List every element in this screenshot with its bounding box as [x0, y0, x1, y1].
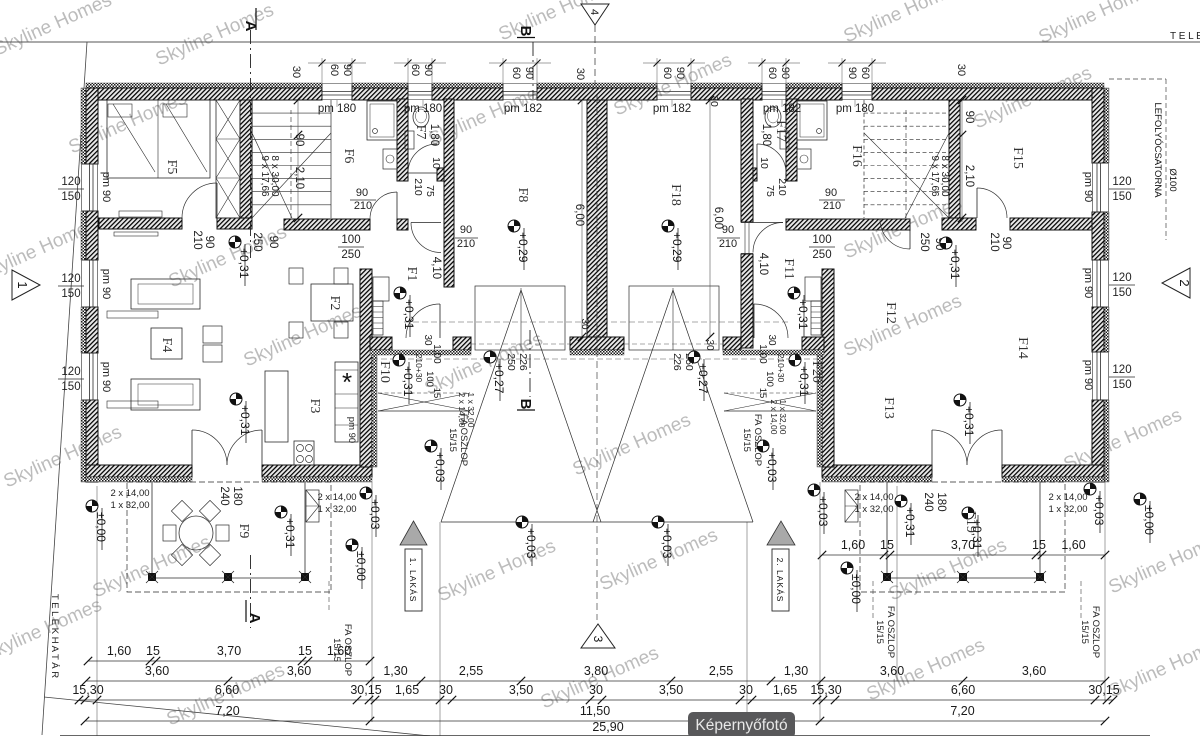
svg-text:210: 210: [191, 230, 203, 249]
svg-text:T E L E: T E L E: [1170, 31, 1200, 42]
svg-text:1 x 32,00: 1 x 32,00: [1048, 504, 1087, 515]
svg-text:30: 30: [704, 339, 715, 351]
svg-text:150: 150: [61, 381, 80, 393]
svg-text:F15: F15: [1010, 147, 1025, 169]
svg-text:250: 250: [812, 249, 831, 261]
svg-text:*: *: [342, 367, 352, 397]
svg-text:120: 120: [1112, 364, 1131, 376]
svg-text:30: 30: [739, 683, 753, 697]
svg-text:90: 90: [341, 64, 353, 76]
svg-text:15/15: 15/15: [1079, 620, 1090, 644]
svg-text:30: 30: [290, 66, 302, 78]
svg-text:90: 90: [674, 67, 686, 79]
svg-text:2 x 14,00: 2 x 14,00: [317, 492, 356, 503]
svg-text:25,90: 25,90: [592, 720, 623, 734]
svg-text:60: 60: [859, 67, 871, 79]
svg-text:60: 60: [766, 67, 778, 79]
svg-text:120: 120: [61, 366, 80, 378]
svg-text:250: 250: [918, 232, 930, 251]
svg-text:210+30: 210+30: [776, 354, 786, 383]
svg-text:3,70: 3,70: [951, 538, 975, 552]
svg-text:+0,03: +0,03: [816, 496, 830, 527]
svg-text:75: 75: [424, 185, 436, 197]
svg-text:210: 210: [988, 232, 1000, 251]
svg-text:+0,03: +0,03: [524, 528, 538, 559]
svg-text:F13: F13: [881, 397, 896, 419]
svg-text:1,80: 1,80: [428, 124, 440, 146]
svg-text:6,60: 6,60: [215, 683, 239, 697]
svg-text:100: 100: [424, 371, 435, 387]
svg-text:F1: F1: [404, 267, 419, 282]
svg-text:pm 90: pm 90: [100, 172, 112, 203]
svg-text:F16: F16: [849, 145, 864, 167]
svg-text:Képernyőfotó: Képernyőfotó: [695, 717, 787, 734]
svg-text:F14: F14: [1015, 337, 1030, 359]
svg-text:7,20: 7,20: [215, 704, 239, 718]
svg-text:F8: F8: [515, 188, 530, 203]
svg-text:F5: F5: [164, 160, 179, 175]
svg-text:6,00: 6,00: [712, 207, 724, 229]
svg-text:1,80: 1,80: [760, 124, 772, 146]
svg-text:F10: F10: [377, 361, 392, 383]
svg-text:1,65: 1,65: [773, 683, 797, 697]
svg-text:+0,03: +0,03: [368, 499, 382, 530]
svg-text:15/15: 15/15: [447, 428, 458, 452]
svg-text:210: 210: [457, 238, 475, 250]
svg-text:+0,31: +0,31: [402, 299, 416, 330]
svg-text:F12: F12: [883, 302, 898, 324]
svg-text:3,60: 3,60: [1022, 664, 1046, 678]
svg-text:250: 250: [251, 232, 263, 251]
svg-text:15: 15: [1032, 538, 1046, 552]
svg-text:±0,00: ±0,00: [849, 574, 863, 604]
svg-text:3,60: 3,60: [880, 664, 904, 678]
svg-text:±0,00: ±0,00: [94, 512, 108, 542]
svg-text:210: 210: [719, 238, 737, 250]
svg-text:+0,03: +0,03: [433, 452, 447, 483]
svg-text:15: 15: [757, 388, 768, 399]
svg-text:F4: F4: [159, 338, 174, 353]
svg-text:90: 90: [460, 224, 472, 236]
svg-text:150: 150: [61, 191, 80, 203]
svg-text:2,55: 2,55: [459, 664, 483, 678]
svg-text:B: B: [517, 26, 534, 37]
svg-text:+0,27: +0,27: [492, 363, 506, 394]
svg-text:4,10: 4,10: [757, 253, 769, 275]
svg-text:F17: F17: [773, 120, 788, 142]
svg-text:90: 90: [846, 67, 858, 79]
svg-text:1,00: 1,00: [431, 344, 442, 364]
svg-text:FA OSZLOP: FA OSZLOP: [1090, 606, 1101, 658]
svg-text:30: 30: [589, 683, 603, 697]
svg-text:+0,03: +0,03: [660, 528, 674, 559]
svg-text:1,00: 1,00: [757, 344, 768, 364]
svg-text:10: 10: [430, 157, 442, 169]
svg-text:180: 180: [231, 486, 243, 505]
svg-text:2 x 14,00: 2 x 14,00: [769, 400, 779, 435]
svg-text:7,20: 7,20: [950, 704, 974, 718]
svg-text:FA OSZLOP: FA OSZLOP: [458, 414, 469, 466]
svg-text:+0,31: +0,31: [401, 366, 415, 397]
svg-text:90: 90: [267, 236, 279, 249]
svg-text:100: 100: [812, 234, 831, 246]
svg-text:6,60: 6,60: [951, 683, 975, 697]
svg-text:+0,03: +0,03: [765, 452, 779, 483]
svg-text:3,60: 3,60: [145, 664, 169, 678]
svg-text:30: 30: [955, 64, 967, 76]
svg-text:75: 75: [764, 185, 776, 197]
svg-text:15: 15: [880, 538, 894, 552]
svg-text:1,30: 1,30: [784, 664, 808, 678]
svg-text:2,55: 2,55: [709, 664, 733, 678]
svg-text:F2: F2: [327, 296, 342, 311]
svg-text:1 x 32,00: 1 x 32,00: [317, 504, 356, 515]
svg-text:pm 90: pm 90: [100, 269, 112, 300]
svg-text:+0,31: +0,31: [948, 249, 962, 280]
svg-text:F9: F9: [236, 524, 251, 539]
svg-text:250: 250: [341, 249, 360, 261]
svg-text:+0,27: +0,27: [696, 363, 710, 394]
svg-text:LEFOLYÓCSATORNA: LEFOLYÓCSATORNA: [1152, 102, 1163, 198]
svg-text:90: 90: [203, 236, 215, 249]
svg-text:90: 90: [1000, 237, 1012, 250]
svg-text:B: B: [517, 399, 534, 410]
svg-text:9 x 17,66: 9 x 17,66: [259, 155, 270, 197]
svg-text:pm 90: pm 90: [1082, 172, 1094, 203]
svg-text:FA OSZLOP: FA OSZLOP: [885, 606, 896, 658]
svg-text:pm 90: pm 90: [1082, 360, 1094, 391]
svg-text:1 x 32,00: 1 x 32,00: [110, 500, 149, 511]
svg-text:15,30: 15,30: [72, 683, 103, 697]
svg-text:F11: F11: [781, 258, 796, 279]
svg-text:+0,03: +0,03: [1092, 495, 1106, 526]
svg-text:1 x 32,00: 1 x 32,00: [778, 400, 788, 435]
svg-text:2: 2: [1177, 279, 1192, 286]
svg-text:30: 30: [579, 318, 590, 330]
svg-text:3,60: 3,60: [287, 664, 311, 678]
svg-text:2,10: 2,10: [293, 167, 305, 189]
svg-text:150: 150: [61, 288, 80, 300]
svg-text:60: 60: [409, 64, 421, 76]
svg-text:pm 90: pm 90: [100, 362, 112, 393]
svg-text:+0,31: +0,31: [796, 299, 810, 330]
svg-text:150: 150: [1112, 379, 1131, 391]
svg-text:A: A: [246, 613, 263, 624]
svg-text:15: 15: [298, 644, 312, 658]
svg-text:210: 210: [412, 178, 424, 196]
svg-text:90: 90: [963, 111, 975, 124]
svg-text:30: 30: [439, 683, 453, 697]
svg-text:210: 210: [823, 200, 841, 212]
svg-text:60: 60: [510, 67, 522, 79]
svg-text:15: 15: [431, 388, 442, 399]
svg-text:30: 30: [574, 68, 586, 80]
svg-text:8 x 30,00: 8 x 30,00: [269, 155, 280, 197]
svg-text:210: 210: [354, 200, 372, 212]
svg-text:+0,31: +0,31: [962, 406, 976, 437]
svg-text:210: 210: [776, 178, 788, 196]
svg-text:+0,31: +0,31: [238, 405, 252, 436]
svg-text:Ø100: Ø100: [1167, 168, 1178, 191]
svg-text:1,60: 1,60: [107, 644, 131, 658]
svg-text:1,60: 1,60: [841, 538, 865, 552]
svg-text:±0,00: ±0,00: [354, 551, 368, 581]
svg-text:2 x 14,00: 2 x 14,00: [110, 488, 149, 499]
svg-text:1,60: 1,60: [1061, 538, 1085, 552]
svg-text:pm 90: pm 90: [346, 417, 357, 443]
svg-text:2,10: 2,10: [963, 165, 975, 187]
svg-text:3,50: 3,50: [509, 683, 533, 697]
svg-text:90: 90: [293, 134, 305, 147]
svg-text:15/15: 15/15: [874, 620, 885, 644]
svg-text:F6: F6: [341, 149, 356, 164]
svg-text:1,65: 1,65: [395, 683, 419, 697]
svg-text:90: 90: [779, 67, 791, 79]
svg-text:60: 60: [661, 67, 673, 79]
svg-text:150: 150: [1112, 191, 1131, 203]
svg-text:10: 10: [758, 157, 770, 169]
svg-text:226: 226: [517, 353, 529, 371]
svg-text:226: 226: [671, 353, 683, 371]
svg-text:9 x 17,66: 9 x 17,66: [929, 155, 940, 197]
svg-text:+0,31: +0,31: [797, 366, 811, 397]
svg-text:120: 120: [1112, 176, 1131, 188]
svg-text:1,30: 1,30: [383, 664, 407, 678]
svg-text:120: 120: [1112, 272, 1131, 284]
svg-text:8 x 30,00: 8 x 30,00: [939, 155, 950, 197]
svg-text:90: 90: [356, 187, 368, 199]
svg-text:3,50: 3,50: [659, 683, 683, 697]
svg-text:240: 240: [922, 492, 934, 511]
svg-text:6,00: 6,00: [573, 204, 585, 226]
svg-text:150: 150: [1112, 287, 1131, 299]
svg-text:±0,00: ±0,00: [1142, 505, 1156, 535]
svg-text:120: 120: [61, 273, 80, 285]
svg-text:3,70: 3,70: [217, 644, 241, 658]
svg-text:15: 15: [146, 644, 160, 658]
svg-text:30,15: 30,15: [350, 683, 381, 697]
svg-text:2 x 14,00: 2 x 14,00: [1048, 492, 1087, 503]
svg-text:2 x 14,00: 2 x 14,00: [854, 492, 893, 503]
svg-text:1. LAKÁS: 1. LAKÁS: [408, 558, 418, 603]
svg-text:+0,31: +0,31: [237, 248, 251, 279]
svg-text:F3: F3: [307, 399, 322, 414]
svg-text:240: 240: [218, 486, 230, 505]
svg-text:2. LAKÁS: 2. LAKÁS: [775, 558, 785, 603]
svg-text:F18: F18: [668, 184, 683, 206]
svg-text:30,15: 30,15: [1088, 683, 1119, 697]
svg-text:+0,29: +0,29: [516, 232, 530, 263]
svg-text:180: 180: [935, 492, 947, 511]
svg-text:100: 100: [341, 234, 360, 246]
svg-text:1 x 32,00: 1 x 32,00: [854, 504, 893, 515]
svg-text:100: 100: [764, 371, 775, 387]
svg-text:120: 120: [61, 176, 80, 188]
svg-text:1,60: 1,60: [327, 644, 351, 658]
svg-text:11,50: 11,50: [580, 704, 610, 718]
svg-text:60: 60: [328, 64, 340, 76]
svg-text:+0,31: +0,31: [903, 507, 917, 538]
svg-text:pm 90: pm 90: [1082, 268, 1094, 299]
svg-text:30: 30: [708, 95, 720, 107]
svg-text:4: 4: [588, 9, 600, 15]
svg-text:3,80: 3,80: [584, 664, 608, 678]
svg-text:4,10: 4,10: [430, 257, 442, 279]
svg-text:F7: F7: [413, 125, 428, 140]
svg-text:1: 1: [15, 281, 30, 288]
svg-text:+0,31: +0,31: [283, 518, 297, 549]
svg-text:15/15: 15/15: [741, 428, 752, 452]
svg-text:+0,29: +0,29: [670, 232, 684, 263]
svg-text:90: 90: [825, 187, 837, 199]
svg-text:3: 3: [591, 636, 605, 643]
svg-text:15,30: 15,30: [810, 683, 841, 697]
svg-text:T E L E K H A T Á R: T E L E K H A T Á R: [49, 594, 60, 678]
